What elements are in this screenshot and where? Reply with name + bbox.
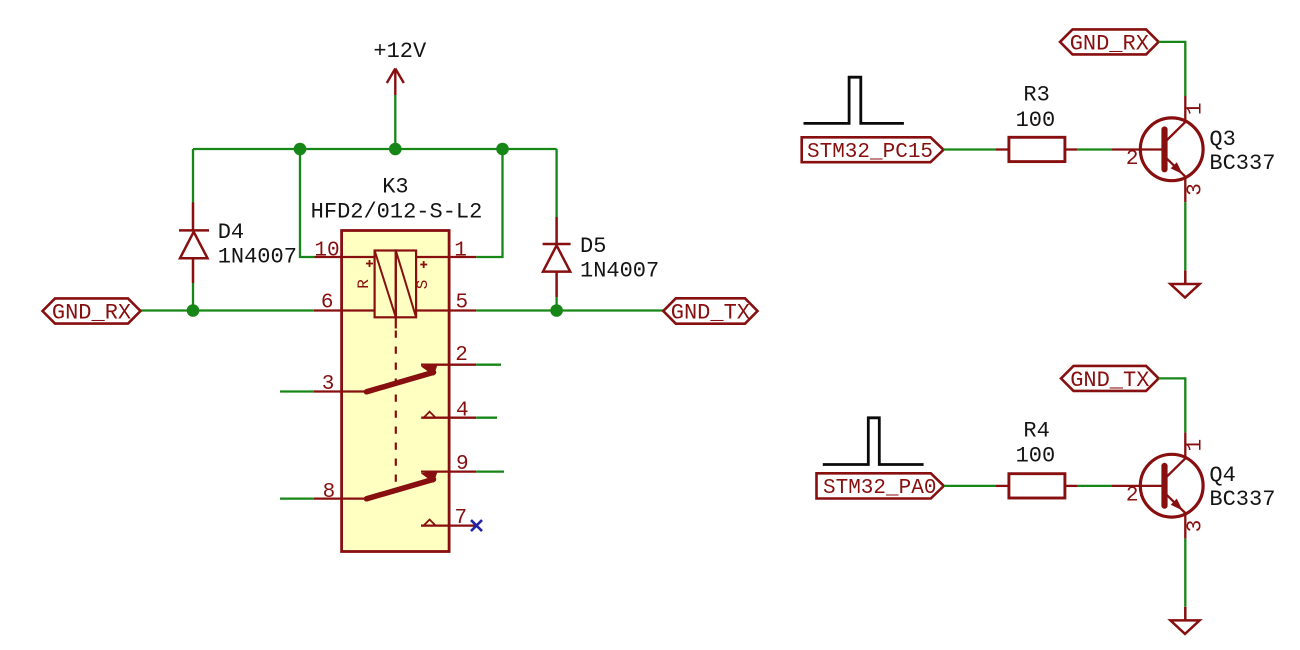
svg-text:HFD2/012-S-L2: HFD2/012-S-L2 <box>311 200 483 225</box>
junction dot top wire middle <box>389 143 402 156</box>
Q4 emitter arrow <box>1171 499 1183 511</box>
global label GND_RX right <box>1060 29 1159 54</box>
relay coil right rectangle <box>396 251 416 318</box>
svg-text:100: 100 <box>1016 108 1056 133</box>
ground symbol Q4 <box>1170 607 1199 634</box>
pin 4 line <box>421 417 476 419</box>
relay armature contact 2 <box>367 479 434 499</box>
svg-text:5: 5 <box>455 291 468 314</box>
pin 9 line <box>421 470 476 472</box>
Q3 body circle <box>1140 118 1203 181</box>
global label GND_TX left section <box>663 298 757 323</box>
relay coil left diagonal <box>375 251 396 318</box>
svg-text:1N4007: 1N4007 <box>580 258 659 283</box>
svg-text:R4: R4 <box>1023 418 1049 443</box>
svg-text:1: 1 <box>1185 439 1208 452</box>
Q3 base bar <box>1161 130 1167 170</box>
wire label to R4 <box>944 485 996 487</box>
svg-text:GND_RX: GND_RX <box>1070 32 1149 57</box>
svg-text:GND_TX: GND_TX <box>671 301 750 326</box>
junction dot top wire left <box>294 143 307 156</box>
svg-text:10: 10 <box>314 240 339 263</box>
svg-text:STM32_PC15: STM32_PC15 <box>807 141 933 164</box>
global label STM32_PC15 <box>802 137 944 162</box>
svg-text:1: 1 <box>454 240 467 263</box>
relay coil right diagonal <box>396 251 416 318</box>
global label STM32_PA0 <box>817 473 944 498</box>
svg-text:+12V: +12V <box>373 39 427 64</box>
relay coil left rectangle <box>375 251 396 318</box>
svg-text:2: 2 <box>455 344 468 367</box>
wire stub pin 4 <box>476 417 497 419</box>
no-connect X pin 7 <box>471 520 482 531</box>
Q4 emitter diagonal <box>1167 495 1186 513</box>
transistor Q4 <box>1112 432 1208 538</box>
wire stub pin 2 <box>476 364 501 366</box>
svg-text:3: 3 <box>1185 520 1208 533</box>
svg-text:6: 6 <box>321 291 334 314</box>
svg-text:BC337: BC337 <box>1209 151 1275 176</box>
wire label to R3 <box>944 148 997 150</box>
pin 6 line <box>314 309 375 311</box>
svg-text:D4: D4 <box>218 220 244 245</box>
wire Q3 emitter to ground <box>1184 202 1186 270</box>
wire D4 branch vertical upper <box>192 149 194 203</box>
wire GND_TX to Q4 collector <box>1159 378 1186 432</box>
wire stub pin 8 <box>280 497 314 499</box>
wire R4 to Q4 base <box>1077 485 1112 487</box>
resistor R4 <box>996 485 1009 487</box>
svg-text:1: 1 <box>1185 102 1208 115</box>
pin 8 line <box>314 497 366 499</box>
pulse stimulus symbol Q3 input <box>804 77 904 123</box>
power symbol +12V <box>387 69 404 96</box>
resistor R3 <box>996 148 1009 150</box>
transistor Q3 <box>1112 96 1208 202</box>
wire stub pin 9 <box>476 470 504 472</box>
svg-text:3: 3 <box>322 373 335 396</box>
junction dot GND row right <box>550 304 563 317</box>
svg-text:K3: K3 <box>382 175 408 200</box>
wire relay pin1 feed vertical <box>476 149 502 257</box>
Q4 base bar <box>1161 466 1167 506</box>
relay coil plus mark left <box>366 260 373 267</box>
svg-text:4: 4 <box>456 399 469 422</box>
pin 5 line <box>416 309 476 311</box>
wire relay pin10 feed vertical <box>300 149 315 257</box>
wire GND_RX row left <box>141 309 314 311</box>
svg-text:100: 100 <box>1016 444 1056 469</box>
Q3 collector pin <box>1184 96 1186 122</box>
relay coil plus mark right <box>420 261 427 268</box>
relay K3 body <box>342 231 450 552</box>
Q4 emitter pin <box>1184 513 1186 538</box>
wire Q4 emitter to ground <box>1184 539 1186 607</box>
ground symbol Q3 <box>1170 270 1199 297</box>
svg-text:Q4: Q4 <box>1209 463 1235 488</box>
svg-text:1N4007: 1N4007 <box>218 244 297 269</box>
diode D5 <box>543 217 571 297</box>
svg-text:STM32_PA0: STM32_PA0 <box>823 477 936 500</box>
wire +12V stem green <box>394 95 396 149</box>
svg-text:8: 8 <box>323 481 336 504</box>
wire GND_TX row right <box>476 309 663 311</box>
Q3 emitter pin <box>1184 177 1186 202</box>
svg-text:2: 2 <box>1126 484 1139 507</box>
Q4 base pin line <box>1112 485 1162 487</box>
svg-text:3: 3 <box>1185 183 1208 196</box>
svg-text:Q3: Q3 <box>1209 127 1235 152</box>
global label GND_TX right <box>1061 366 1159 391</box>
NC contact triangle pin 7 <box>424 520 436 526</box>
svg-text:2: 2 <box>1126 148 1139 171</box>
svg-text:D5: D5 <box>580 234 606 259</box>
pin 7 line <box>421 524 476 526</box>
pulse stimulus symbol Q4 input <box>823 418 924 465</box>
NC contact triangle pin 4 <box>424 412 436 418</box>
Q3 emitter arrow <box>1171 162 1183 174</box>
junction dot top wire right <box>496 143 509 156</box>
Q4 collector pin <box>1184 432 1186 458</box>
diode D4 <box>179 203 209 284</box>
svg-text:R: R <box>355 279 373 289</box>
wire D5 branch vertical upper <box>555 149 557 217</box>
svg-text:9: 9 <box>456 453 469 476</box>
junction dot GND row left <box>187 304 200 317</box>
svg-text:S: S <box>414 280 432 290</box>
svg-text:7: 7 <box>454 507 467 530</box>
Q3 emitter diagonal <box>1167 158 1186 176</box>
wire GND_RX to Q3 collector <box>1159 42 1186 96</box>
wire stub pin 3 <box>280 390 314 392</box>
global label GND_RX left <box>43 298 141 323</box>
wire D4 branch vertical lower <box>192 283 194 311</box>
pin 3 line <box>314 390 366 392</box>
relay armature contact 1 <box>367 372 434 392</box>
wire D5 branch vertical lower <box>555 297 557 311</box>
relay coil center line extension <box>395 317 397 328</box>
svg-text:GND_RX: GND_RX <box>52 301 131 326</box>
svg-text:R3: R3 <box>1023 82 1049 107</box>
pin 2 line <box>421 364 476 366</box>
relay dashed divider <box>395 331 397 488</box>
svg-text:BC337: BC337 <box>1209 487 1275 512</box>
wire R3 to Q3 base <box>1077 148 1112 150</box>
Q3 collector diagonal <box>1167 122 1186 141</box>
Q3 base pin line <box>1112 148 1162 150</box>
pin 10 line <box>315 256 375 258</box>
Q4 collector diagonal <box>1167 458 1186 477</box>
wire top horizontal rail <box>193 148 557 150</box>
Q4 body circle <box>1140 454 1203 517</box>
pin 1 line <box>416 256 476 258</box>
svg-text:GND_TX: GND_TX <box>1070 368 1149 393</box>
